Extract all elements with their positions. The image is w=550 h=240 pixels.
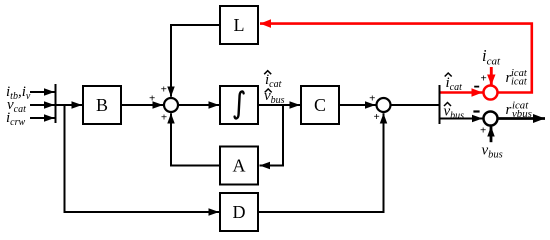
svg-text:A: A [233,156,246,176]
svg-text:+: + [149,92,155,104]
svg-text:icat: icat [511,77,528,88]
svg-text:vbus: vbus [512,108,532,120]
svg-text:+: + [481,73,487,85]
svg-text:icat: icat [482,46,501,68]
svg-text:r: r [506,102,512,118]
svg-text:+: + [161,84,167,96]
svg-text:D: D [233,202,246,222]
svg-text:C: C [314,95,326,115]
svg-text:vbus: vbus [444,104,465,122]
svg-text:L: L [234,15,245,35]
svg-text:+: + [369,92,375,104]
svg-text:+: + [161,111,167,123]
svg-text:+: + [480,125,486,137]
svg-text:vbus: vbus [482,143,503,161]
svg-text:icat: icat [446,75,463,93]
svg-text:B: B [96,95,108,115]
svg-text:+: + [373,111,379,123]
